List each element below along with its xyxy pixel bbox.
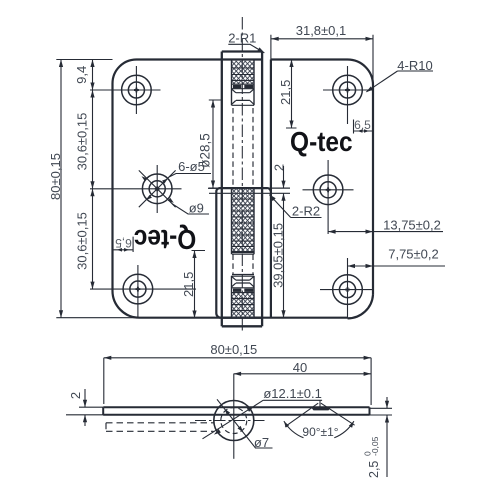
svg-text:2: 2 — [272, 164, 287, 171]
svg-text:30,6±0,15: 30,6±0,15 — [75, 212, 90, 270]
svg-text:2: 2 — [68, 392, 83, 399]
svg-text:ø12.1±0.1: ø12.1±0.1 — [263, 386, 321, 401]
svg-text:80±0,15: 80±0,15 — [48, 153, 63, 200]
svg-text:Q-tec: Q-tec — [290, 126, 353, 157]
svg-text:Q-tec: Q-tec — [134, 224, 197, 255]
svg-text:30,6±0,15: 30,6±0,15 — [75, 113, 90, 171]
svg-text:31,8±0,1: 31,8±0,1 — [296, 23, 347, 38]
svg-text:6,5: 6,5 — [354, 118, 371, 132]
svg-text:90°±1°: 90°±1° — [302, 425, 338, 439]
svg-text:80±0,15: 80±0,15 — [210, 342, 257, 357]
svg-text:13,75±0,2: 13,75±0,2 — [383, 218, 441, 233]
svg-text:0: 0 — [363, 451, 373, 456]
svg-text:9,4: 9,4 — [74, 66, 89, 84]
svg-text:7,75±0,2: 7,75±0,2 — [388, 247, 439, 262]
svg-text:2,5: 2,5 — [367, 461, 381, 478]
svg-text:21,5: 21,5 — [278, 80, 293, 105]
svg-text:ø7: ø7 — [254, 435, 269, 450]
svg-text:40: 40 — [293, 360, 307, 375]
svg-text:21,5: 21,5 — [181, 272, 196, 297]
svg-text:39,05±0,15: 39,05±0,15 — [271, 223, 286, 288]
svg-text:6,5: 6,5 — [115, 236, 132, 250]
svg-text:2-R1: 2-R1 — [228, 30, 256, 45]
svg-text:ø9: ø9 — [189, 200, 204, 215]
svg-text:6-ø5: 6-ø5 — [178, 159, 205, 174]
svg-text:2-R2: 2-R2 — [292, 203, 320, 218]
